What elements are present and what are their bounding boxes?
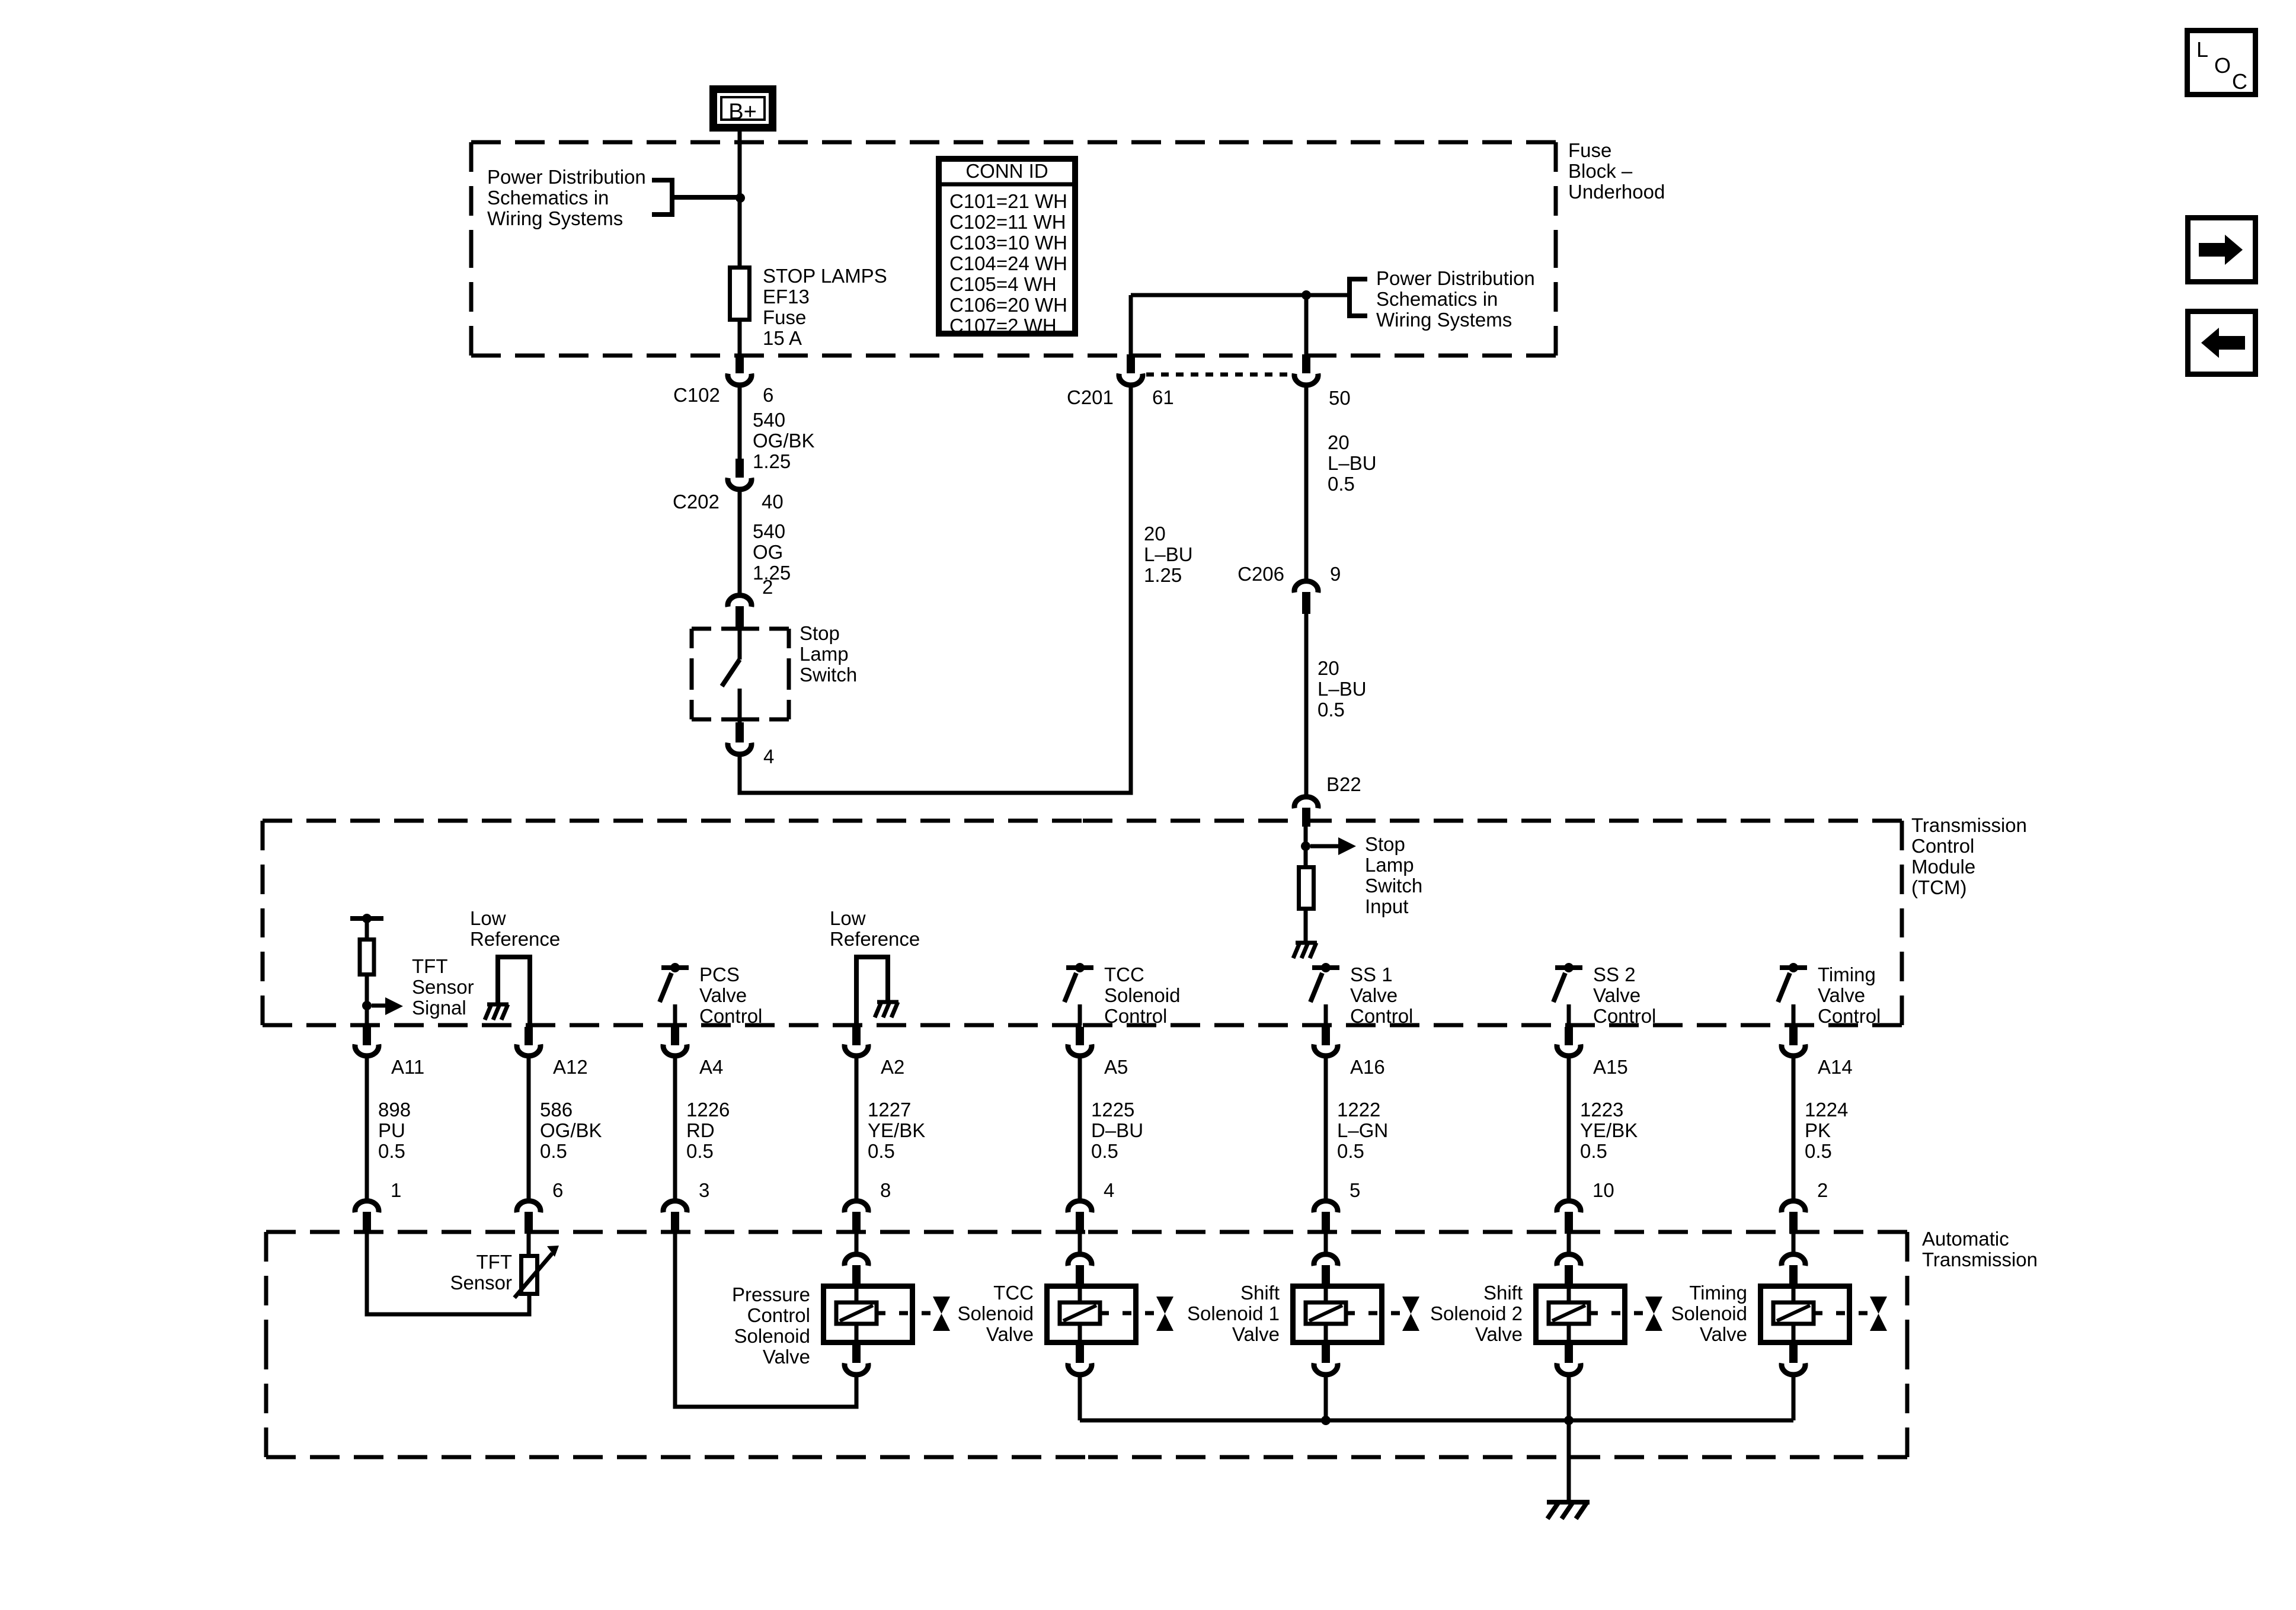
arrow: TFT sensor signal <box>372 997 403 1015</box>
svg-text:TCC: TCC <box>993 1282 1034 1304</box>
stop lamp switch contacts and blade <box>722 629 740 722</box>
svg-text:2: 2 <box>1817 1179 1828 1201</box>
pressure control solenoid valve coil box <box>824 1283 913 1345</box>
svg-text:1224: 1224 <box>1805 1099 1848 1121</box>
wire from C201-61 up inside fuse block <box>1129 295 1133 356</box>
TFT sensor pullup: top rail <box>350 914 383 923</box>
ground (transmission case) <box>1547 1500 1590 1505</box>
shift solenoid 2 valve top terminal connector <box>1557 1254 1581 1283</box>
svg-text:L–BU: L–BU <box>1318 678 1367 700</box>
wire A16 to pin 5 <box>1324 1057 1328 1199</box>
TCM connector pin A12 (bar and cup) <box>517 1027 541 1056</box>
svg-text:D–BU: D–BU <box>1091 1119 1143 1141</box>
B+ battery feed symbol <box>714 89 773 128</box>
svg-text:A14: A14 <box>1818 1056 1853 1078</box>
svg-text:5: 5 <box>1350 1179 1360 1201</box>
shift solenoid 2 valve hydraulic link (dash-dot) <box>1589 1311 1645 1315</box>
svg-text:C103=10 WH: C103=10 WH <box>949 232 1067 254</box>
shift solenoid 1 valve valve symbol (bowtie) <box>1402 1297 1419 1331</box>
junction dot TFT sensor signal <box>362 1001 372 1010</box>
svg-text:4: 4 <box>1104 1179 1114 1201</box>
svg-text:C202: C202 <box>673 491 720 513</box>
svg-text:Switch: Switch <box>800 664 857 686</box>
wire pin 8 (A2) to pressure solenoid top <box>855 1234 859 1252</box>
svg-text:C102=11 WH: C102=11 WH <box>949 211 1066 233</box>
arrow: stop lamp switch input signal <box>1310 837 1356 855</box>
svg-text:0.5: 0.5 <box>868 1140 895 1162</box>
svg-text:(TCM): (TCM) <box>1911 876 1966 898</box>
svg-text:20: 20 <box>1328 431 1350 453</box>
svg-text:Stop: Stop <box>1365 833 1405 855</box>
svg-text:Sensor: Sensor <box>450 1272 512 1294</box>
svg-text:4: 4 <box>763 745 774 767</box>
svg-text:Timing: Timing <box>1689 1282 1747 1304</box>
switch pin 2 connector <box>728 596 752 629</box>
note bracket (left power distribution) <box>652 180 740 215</box>
svg-text:A2: A2 <box>881 1056 904 1078</box>
TFT sensor (variable resistor) <box>514 1246 559 1298</box>
svg-text:Reference: Reference <box>470 928 560 950</box>
TCM connector pin A5 (bar and cup) <box>1068 1027 1092 1056</box>
svg-text:2: 2 <box>762 576 773 598</box>
svg-text:L–BU: L–BU <box>1328 452 1377 474</box>
svg-text:OG/BK: OG/BK <box>753 430 815 452</box>
svg-text:6: 6 <box>552 1179 563 1201</box>
stop lamp switch dashed box <box>692 627 740 631</box>
svg-text:0.5: 0.5 <box>1580 1140 1607 1162</box>
svg-text:0.5: 0.5 <box>1091 1140 1118 1162</box>
svg-text:A4: A4 <box>699 1056 723 1078</box>
timing solenoid valve valve symbol (bowtie) <box>1870 1297 1887 1331</box>
TCC solenoid valve bottom terminal connector <box>1068 1345 1092 1375</box>
wire shift solenoid 2 bottom to ground <box>1567 1376 1571 1502</box>
svg-text:Control: Control <box>747 1304 810 1326</box>
svg-text:Stop: Stop <box>800 622 840 644</box>
svg-text:TCC: TCC <box>1104 964 1144 985</box>
wire A14 to pin 2 <box>1792 1057 1796 1199</box>
svg-text:A11: A11 <box>391 1056 424 1078</box>
transmission connector pin 5 (cup and bar) <box>1314 1201 1338 1234</box>
svg-text:Transmission: Transmission <box>1922 1249 2038 1270</box>
svg-text:1.25: 1.25 <box>1144 564 1182 586</box>
shift solenoid 2 valve valve symbol (bowtie) <box>1645 1297 1662 1331</box>
fuse block underhood dashed box <box>471 140 1013 145</box>
note bracket (right power distribution) <box>1350 279 1367 316</box>
shift solenoid 2 valve coil box <box>1536 1283 1625 1345</box>
svg-text:Timing: Timing <box>1818 964 1876 985</box>
TCM connector pin A15 (bar and cup) <box>1557 1027 1581 1056</box>
svg-text:Valve: Valve <box>1475 1323 1523 1345</box>
wire A12 to pin 6 <box>527 1057 531 1199</box>
svg-text:0.5: 0.5 <box>686 1140 714 1162</box>
svg-text:9: 9 <box>1330 563 1341 585</box>
TCC solenoid valve hydraulic link (dash-dot) <box>1100 1311 1156 1315</box>
junction dot above connector 50 <box>1302 290 1311 300</box>
TCC solenoid valve top terminal connector <box>1068 1254 1092 1283</box>
svg-text:C206: C206 <box>1237 563 1284 585</box>
ground (A12 low reference) <box>487 1003 509 1007</box>
PCS control switch symbol <box>660 963 689 1025</box>
svg-text:C105=4 WH: C105=4 WH <box>949 273 1057 295</box>
forward arrow icon box <box>2188 218 2256 282</box>
TCC solenoid valve coil box <box>1047 1283 1136 1345</box>
svg-text:Solenoid: Solenoid <box>734 1325 810 1347</box>
svg-text:A12: A12 <box>553 1056 588 1078</box>
svg-text:Shift: Shift <box>1240 1282 1280 1304</box>
svg-text:Wiring Systems: Wiring Systems <box>487 207 623 229</box>
svg-text:Fuse: Fuse <box>1568 139 1611 161</box>
svg-text:20: 20 <box>1144 523 1166 545</box>
wire across to power distribution note (right) <box>1131 293 1350 297</box>
svg-text:Wiring Systems: Wiring Systems <box>1376 309 1512 331</box>
svg-text:SS 1: SS 1 <box>1350 964 1393 985</box>
svg-text:YE/BK: YE/BK <box>1580 1119 1638 1141</box>
transmission connector pin 6 (cup and bar) <box>517 1201 541 1234</box>
svg-text:Solenoid 1: Solenoid 1 <box>1187 1302 1280 1324</box>
wire B22 into TCM <box>1304 827 1308 867</box>
low reference loop (A12) <box>498 957 530 1025</box>
svg-text:Schematics in: Schematics in <box>487 187 609 209</box>
svg-text:Control: Control <box>1104 1005 1167 1027</box>
svg-text:OG/BK: OG/BK <box>540 1119 602 1141</box>
svg-text:1227: 1227 <box>868 1099 911 1121</box>
svg-text:STOP LAMPS: STOP LAMPS <box>763 265 887 287</box>
wire TCC solenoid bottom to common bus <box>1078 1376 1082 1420</box>
wire A4 to pin 3 <box>673 1057 677 1199</box>
svg-text:Valve: Valve <box>1818 984 1865 1006</box>
back arrow icon box <box>2188 312 2256 375</box>
LOC hotlink icon box <box>2188 31 2256 95</box>
wire B+ down to fuse <box>738 132 742 267</box>
svg-text:Solenoid: Solenoid <box>1671 1302 1747 1324</box>
svg-text:Control: Control <box>1911 835 1974 857</box>
svg-text:Transmission: Transmission <box>1911 814 2027 836</box>
svg-text:Solenoid: Solenoid <box>958 1302 1034 1324</box>
svg-text:C106=20 WH: C106=20 WH <box>949 294 1067 316</box>
svg-text:O: O <box>2214 53 2231 78</box>
TCM connector pin A4 (bar and cup) <box>663 1027 687 1056</box>
transmission connector pin 8 (cup and bar) <box>845 1201 868 1234</box>
svg-text:C104=24 WH: C104=24 WH <box>949 252 1067 274</box>
svg-text:Signal: Signal <box>412 997 466 1019</box>
svg-text:Switch: Switch <box>1365 875 1422 897</box>
svg-text:1222: 1222 <box>1337 1099 1380 1121</box>
svg-text:898: 898 <box>378 1099 411 1121</box>
svg-text:TFT: TFT <box>412 955 447 977</box>
svg-text:6: 6 <box>763 384 773 406</box>
svg-text:Valve: Valve <box>1700 1323 1747 1345</box>
svg-text:Automatic: Automatic <box>1922 1228 2009 1250</box>
shift solenoid 1 valve coil box <box>1293 1283 1382 1345</box>
ground (A2 low reference) <box>877 1000 898 1004</box>
svg-text:L–GN: L–GN <box>1337 1119 1388 1141</box>
svg-text:0.5: 0.5 <box>1318 699 1345 721</box>
low reference loop (A2) <box>856 957 888 1025</box>
svg-text:L: L <box>2196 37 2208 62</box>
transmission connector pin 10 (cup and bar) <box>1557 1201 1581 1234</box>
transmission connector pin 4 (cup and bar) <box>1068 1201 1092 1234</box>
svg-text:61: 61 <box>1152 386 1174 408</box>
wire A2 to pin 8 <box>855 1057 859 1199</box>
pressure control solenoid valve valve symbol (bowtie) <box>933 1297 950 1331</box>
svg-text:YE/BK: YE/BK <box>868 1119 925 1141</box>
timing solenoid valve top terminal connector <box>1782 1254 1805 1283</box>
svg-text:A16: A16 <box>1350 1056 1385 1078</box>
svg-text:PK: PK <box>1805 1119 1831 1141</box>
SS2 control switch symbol <box>1553 963 1582 1025</box>
automatic transmission dashed box <box>266 1230 1087 1234</box>
TCM connector pin A14 (bar and cup) <box>1782 1027 1805 1056</box>
input pulldown resistor <box>1299 868 1314 909</box>
svg-text:0.5: 0.5 <box>1328 473 1355 495</box>
junction dot stop lamp switch input <box>1301 841 1310 851</box>
svg-text:586: 586 <box>540 1099 573 1121</box>
svg-text:1: 1 <box>391 1179 401 1201</box>
shift solenoid 1 valve hydraulic link (dash-dot) <box>1346 1311 1402 1315</box>
svg-text:8: 8 <box>880 1179 891 1201</box>
svg-text:Valve: Valve <box>986 1323 1034 1345</box>
svg-text:Schematics in: Schematics in <box>1376 288 1498 310</box>
svg-text:Underhood: Underhood <box>1568 181 1665 203</box>
wire C102 to C202 <box>738 386 742 460</box>
pressure control solenoid valve top terminal connector <box>845 1254 868 1283</box>
dashed connector link C201 <box>1146 373 1290 377</box>
svg-text:TFT: TFT <box>477 1251 512 1273</box>
wire pin 5 to shift solenoid 1 top <box>1324 1234 1328 1252</box>
svg-text:Valve: Valve <box>1232 1323 1280 1345</box>
svg-text:C201: C201 <box>1067 386 1114 408</box>
svg-text:C: C <box>2232 69 2247 94</box>
svg-text:0.5: 0.5 <box>540 1140 567 1162</box>
TCM connector pin A16 (bar and cup) <box>1314 1027 1338 1056</box>
CONN ID table box <box>936 159 1078 334</box>
svg-text:1223: 1223 <box>1580 1099 1623 1121</box>
svg-text:40: 40 <box>762 491 784 513</box>
wire A15 to pin 10 <box>1567 1057 1571 1199</box>
wire junction down to connector 50 <box>1304 295 1309 356</box>
connector B22 <box>1294 797 1318 827</box>
timing solenoid valve hydraulic link (dash-dot) <box>1814 1311 1869 1315</box>
connector C206 pin 9 <box>1294 581 1318 614</box>
svg-text:Shift: Shift <box>1483 1282 1523 1304</box>
connector C201 pin 61 <box>1119 354 1143 385</box>
svg-text:Power Distribution: Power Distribution <box>1376 267 1535 289</box>
svg-text:Sensor: Sensor <box>412 976 474 998</box>
timing solenoid valve bottom terminal connector <box>1782 1345 1805 1375</box>
svg-text:540: 540 <box>753 409 785 431</box>
wire pin 2 to timing solenoid top <box>1792 1234 1796 1252</box>
Timing control switch symbol <box>1778 963 1807 1025</box>
svg-text:RD: RD <box>686 1119 715 1141</box>
wire 50 to C206 <box>1304 386 1309 579</box>
svg-text:Solenoid: Solenoid <box>1104 984 1180 1006</box>
svg-text:20: 20 <box>1318 657 1339 679</box>
svg-text:PU: PU <box>378 1119 405 1141</box>
wire pin1 to TFT sensor (L path) <box>367 1234 529 1314</box>
svg-text:10: 10 <box>1593 1179 1614 1201</box>
svg-text:Input: Input <box>1365 895 1408 917</box>
junction dot at power distribution tap <box>736 193 745 203</box>
svg-text:0.5: 0.5 <box>378 1140 405 1162</box>
connector C201 pin 50 <box>1294 354 1318 385</box>
svg-text:C107=2 WH: C107=2 WH <box>949 315 1057 337</box>
svg-text:Module: Module <box>1911 856 1975 878</box>
svg-text:Lamp: Lamp <box>800 643 849 665</box>
svg-text:1.25: 1.25 <box>753 450 791 472</box>
shift solenoid 2 valve bottom terminal connector <box>1557 1345 1581 1375</box>
svg-text:Low: Low <box>470 907 506 929</box>
svg-text:Control: Control <box>1818 1005 1881 1027</box>
ground (stop lamp switch input) <box>1296 941 1317 945</box>
TFT pullup resistor <box>360 918 374 1025</box>
wire C206 to B22 <box>1304 614 1309 795</box>
svg-text:Control: Control <box>699 1005 762 1027</box>
transmission connector pin 2 (cup and bar) <box>1782 1201 1805 1234</box>
junction dot SS1 on bus <box>1321 1416 1331 1425</box>
svg-text:A15: A15 <box>1593 1056 1628 1078</box>
svg-text:Valve: Valve <box>1350 984 1398 1006</box>
wire A11 to pin 1 <box>365 1057 369 1199</box>
svg-text:CONN ID: CONN ID <box>965 160 1048 182</box>
svg-text:B+: B+ <box>728 100 757 124</box>
shift solenoid 1 valve bottom terminal connector <box>1314 1345 1338 1375</box>
svg-text:Fuse: Fuse <box>763 306 806 328</box>
wire pin 10 to shift solenoid 2 top <box>1567 1234 1571 1252</box>
pressure control solenoid valve hydraulic link (dash-dot) <box>877 1311 932 1315</box>
wire A5 to pin 4 <box>1078 1057 1082 1199</box>
svg-text:0.5: 0.5 <box>1337 1140 1364 1162</box>
svg-text:Low: Low <box>830 907 866 929</box>
SS1 control switch symbol <box>1310 963 1339 1025</box>
wire switch pin 4 to C201-61 (L path) <box>740 386 1131 793</box>
TCM connector pin A11 (bar and cup) <box>355 1027 379 1056</box>
svg-text:OG: OG <box>753 541 783 563</box>
svg-text:50: 50 <box>1329 387 1351 409</box>
transmission control module dashed box <box>263 819 1082 823</box>
wire pin 6 to TFT sensor top <box>527 1234 531 1256</box>
TCC control switch symbol <box>1064 963 1093 1025</box>
common return bus <box>1080 1419 1793 1423</box>
svg-text:EF13: EF13 <box>763 286 810 308</box>
svg-text:Lamp: Lamp <box>1365 854 1414 876</box>
svg-text:SS 2: SS 2 <box>1593 964 1636 985</box>
transmission connector pin 3 (cup and bar) <box>663 1201 687 1234</box>
svg-text:Valve: Valve <box>763 1346 810 1368</box>
shift solenoid 1 valve top terminal connector <box>1314 1254 1338 1283</box>
svg-text:540: 540 <box>753 520 785 542</box>
svg-text:3: 3 <box>699 1179 709 1201</box>
transmission connector pin 1 (cup and bar) <box>355 1201 379 1234</box>
junction dot SS2 on bus <box>1564 1416 1574 1425</box>
svg-text:B22: B22 <box>1326 773 1361 795</box>
svg-text:1225: 1225 <box>1091 1099 1134 1121</box>
TCC solenoid valve valve symbol (bowtie) <box>1156 1297 1173 1331</box>
fuse EF13 15A symbol <box>730 268 750 320</box>
svg-text:Reference: Reference <box>830 928 920 950</box>
svg-text:Power Distribution: Power Distribution <box>487 166 646 188</box>
svg-text:C101=21 WH: C101=21 WH <box>949 190 1067 212</box>
svg-text:Control: Control <box>1350 1005 1413 1027</box>
timing solenoid valve coil box <box>1761 1283 1850 1345</box>
svg-text:1226: 1226 <box>686 1099 730 1121</box>
svg-text:C102: C102 <box>673 384 720 406</box>
svg-text:Control: Control <box>1593 1005 1656 1027</box>
connector C102 pin 6 <box>728 354 752 385</box>
svg-text:Pressure: Pressure <box>732 1283 810 1305</box>
wire resistor to ground <box>1304 911 1308 943</box>
svg-text:A5: A5 <box>1104 1056 1128 1078</box>
svg-text:Block –: Block – <box>1568 160 1633 182</box>
svg-text:15 A: 15 A <box>763 327 802 349</box>
wire shift solenoid 1 bottom to common bus <box>1324 1376 1328 1420</box>
svg-text:L–BU: L–BU <box>1144 543 1193 565</box>
wire pin 4 to TCC solenoid top <box>1078 1234 1082 1252</box>
connector C202 pin 40 <box>728 459 752 489</box>
TCM connector pin A2 (bar and cup) <box>845 1027 868 1056</box>
wire C202 to switch pin 2 <box>738 491 742 593</box>
svg-text:Valve: Valve <box>1593 984 1641 1006</box>
wire fuse to C102 <box>738 319 742 356</box>
wire pin 3 to pressure solenoid bottom (L path) <box>675 1234 856 1407</box>
svg-text:Valve: Valve <box>699 984 747 1006</box>
svg-text:0.5: 0.5 <box>1805 1140 1832 1162</box>
svg-text:Solenoid 2: Solenoid 2 <box>1430 1302 1523 1324</box>
wire timing solenoid bottom to common bus <box>1792 1376 1796 1420</box>
pressure control solenoid valve bottom terminal connector <box>845 1345 868 1375</box>
svg-text:PCS: PCS <box>699 964 740 985</box>
switch pin 4 connector <box>728 722 752 754</box>
